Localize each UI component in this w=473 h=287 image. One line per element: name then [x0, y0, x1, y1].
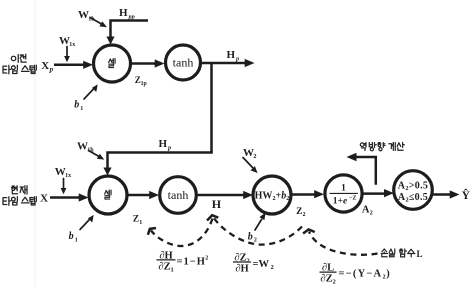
wire W_2 pointer arrow — [243, 158, 253, 168]
wire b_1 pointer arrow (bottom) — [80, 220, 89, 230]
svg-text:Z: Z — [296, 207, 302, 217]
svg-text:1: 1 — [171, 267, 174, 274]
svg-text:1p: 1p — [141, 81, 147, 87]
svg-text:A2>0.5: A2>0.5 — [398, 180, 428, 192]
svg-text:∂Z: ∂Z — [320, 274, 332, 285]
gradient dashed arc H to Z_1 — [151, 219, 213, 247]
svg-text:=1−H: =1−H — [177, 257, 206, 268]
svg-text:2: 2 — [333, 279, 336, 286]
svg-text:tanh: tanh — [168, 188, 189, 202]
gradient dashed arc Z_2 to H — [214, 218, 303, 245]
svg-text:H: H — [119, 7, 128, 19]
svg-text:): ) — [386, 269, 390, 280]
svg-text:H: H — [159, 138, 168, 150]
wire b_1 pointer arrow (top) — [84, 90, 93, 100]
wire W_1h pointer arrow (top) — [90, 18, 102, 25]
svg-text:1: 1 — [80, 106, 83, 112]
svg-text:−Z: −Z — [349, 196, 356, 202]
wire X arrow into cell 2 — [50, 196, 81, 199]
svg-text:1x: 1x — [65, 173, 71, 179]
svg-text:b: b — [69, 231, 74, 242]
wire A_2 arrow sigmoid to threshold — [362, 192, 386, 195]
wire X_p arrow into cell 1 — [54, 64, 85, 67]
svg-text:X: X — [41, 60, 49, 72]
svg-text:=−(Y−A: =−(Y−A — [339, 269, 383, 280]
svg-text:Ŷ: Ŷ — [462, 188, 471, 202]
svg-text:2: 2 — [370, 211, 373, 217]
svg-text:HW2+b2: HW2+b2 — [255, 191, 290, 203]
label previous-time-step (Korean: 이전 타임 스텝) — [3, 54, 36, 74]
svg-text:L: L — [417, 249, 423, 259]
wire Z_2 arrow dense to sigmoid — [291, 193, 316, 196]
svg-text:tanh: tanh — [173, 56, 194, 70]
wire W_1x down-arrow (top) — [66, 47, 68, 57]
svg-text:Z: Z — [133, 215, 139, 225]
wire backward-calc L-arrow — [355, 157, 376, 184]
svg-text:2: 2 — [253, 153, 256, 160]
svg-text:2: 2 — [205, 256, 208, 262]
svg-text:X: X — [40, 192, 48, 204]
svg-text:1: 1 — [341, 184, 346, 194]
svg-text:H: H — [212, 197, 222, 211]
wire recurrent vertical from junction — [210, 63, 213, 153]
wire H arrow tanh2 to dense — [196, 194, 245, 197]
wire W_1x down-arrow (bottom) — [63, 179, 65, 189]
svg-text:A2≤0.5: A2≤0.5 — [398, 192, 428, 204]
op threshold circle — [394, 171, 433, 210]
wire W_1h pointer arrow (bottom) — [89, 151, 100, 157]
op dense circle HW2+b2 — [253, 176, 291, 214]
cell circle U1 (previous step 셀) — [94, 45, 131, 82]
svg-text:p: p — [49, 65, 54, 73]
svg-text:2: 2 — [254, 238, 257, 244]
svg-text:1+e: 1+e — [333, 197, 348, 207]
svg-text:1: 1 — [75, 237, 78, 243]
gradient dashed arc loss to Z_2 — [309, 232, 378, 255]
svg-text:1: 1 — [139, 220, 142, 226]
wire recurrent horizontal to cell 2 — [108, 153, 213, 170]
svg-text:p: p — [235, 55, 239, 62]
wire b_2 pointer arrow — [255, 220, 262, 231]
svg-text:=W: =W — [253, 259, 270, 270]
svg-text:∂Z: ∂Z — [158, 262, 170, 273]
op sigmoid circle — [325, 175, 362, 212]
wire Z_1p arrow cell1 to tanh1 — [131, 62, 157, 65]
svg-text:2: 2 — [383, 275, 386, 281]
op tanh circle (top) — [166, 45, 201, 80]
svg-text:2: 2 — [271, 264, 274, 271]
wire Y-hat arrow — [433, 193, 452, 196]
label current-time-step (Korean: 현재 타임 스텝) — [3, 186, 36, 206]
svg-text:∂H: ∂H — [235, 264, 248, 275]
wire H_p output arrow (top) — [201, 62, 247, 65]
svg-text:H: H — [227, 49, 236, 61]
op tanh circle (bottom) — [160, 177, 197, 214]
wire Z_1 arrow cell2 to tanh2 — [127, 194, 151, 197]
svg-text:1x: 1x — [69, 42, 75, 48]
wire H_pp stub into cell 1 — [111, 21, 149, 39]
svg-text:p: p — [167, 144, 171, 151]
svg-text:b: b — [248, 231, 253, 242]
label backward-calc (Korean: 역방향 계산) — [360, 143, 404, 151]
cell circle U2 (current step 셀) — [89, 176, 127, 214]
label loss-function (Korean: 손실 함수 L) — [381, 249, 415, 257]
svg-text:b: b — [74, 100, 79, 111]
svg-text:2: 2 — [303, 212, 306, 218]
svg-text:A: A — [362, 204, 370, 215]
faint page artifact line — [35, 0, 36, 287]
